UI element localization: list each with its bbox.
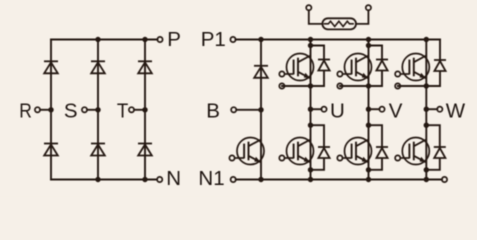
svg-text:T: T bbox=[117, 99, 129, 122]
svg-text:U: U bbox=[330, 99, 345, 122]
svg-text:W: W bbox=[446, 99, 466, 122]
svg-text:N: N bbox=[166, 167, 181, 190]
svg-text:V: V bbox=[389, 99, 403, 122]
svg-text:S: S bbox=[64, 99, 78, 122]
svg-text:P1: P1 bbox=[201, 28, 226, 51]
svg-text:B: B bbox=[206, 99, 220, 122]
svg-text:P: P bbox=[167, 28, 181, 51]
svg-text:N1: N1 bbox=[198, 167, 224, 190]
svg-text:R: R bbox=[19, 99, 32, 122]
